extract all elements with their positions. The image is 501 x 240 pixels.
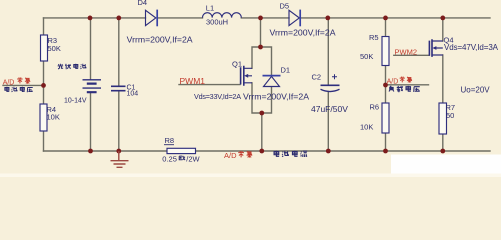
svg-text:Vrrm=200V,If=2A: Vrrm=200V,If=2A — [127, 34, 193, 44]
svg-text:Vds=33V,Id=2A: Vds=33V,Id=2A — [194, 92, 241, 101]
svg-text:300uH: 300uH — [206, 17, 228, 26]
svg-text:A/D: A/D — [224, 151, 237, 160]
svg-text:A/D: A/D — [3, 79, 15, 86]
svg-text:Vds=47V,Id=3A: Vds=47V,Id=3A — [444, 43, 499, 52]
svg-text:D5: D5 — [280, 1, 290, 10]
svg-text:10K: 10K — [47, 112, 60, 121]
svg-text:PWM2: PWM2 — [395, 48, 418, 57]
svg-text:10-14V: 10-14V — [64, 97, 87, 104]
svg-text:R8: R8 — [165, 136, 175, 145]
svg-text:Vrrm=200V,If=2A: Vrrm=200V,If=2A — [270, 28, 336, 38]
svg-text:104: 104 — [127, 90, 139, 97]
svg-text:50K: 50K — [360, 52, 373, 61]
svg-text:D1: D1 — [281, 65, 291, 74]
svg-text:47uF/50V: 47uF/50V — [311, 104, 348, 114]
svg-text:10K: 10K — [360, 122, 373, 131]
svg-text:/2W: /2W — [186, 154, 200, 163]
svg-text:D4: D4 — [138, 0, 148, 7]
svg-text:Vrrm=200V,If=2A: Vrrm=200V,If=2A — [243, 92, 309, 102]
svg-text:50K: 50K — [48, 44, 61, 53]
svg-text:PWM1: PWM1 — [180, 76, 206, 86]
svg-text:Uo=20V: Uo=20V — [461, 86, 491, 95]
svg-text:L1: L1 — [206, 4, 214, 13]
svg-text:C2: C2 — [312, 73, 322, 82]
svg-text:50: 50 — [446, 111, 454, 120]
svg-text:R6: R6 — [370, 102, 380, 111]
svg-text:Q1: Q1 — [232, 60, 242, 69]
svg-text:A/D: A/D — [387, 78, 399, 85]
svg-text:0.25: 0.25 — [162, 154, 177, 163]
svg-text:R5: R5 — [369, 33, 379, 42]
